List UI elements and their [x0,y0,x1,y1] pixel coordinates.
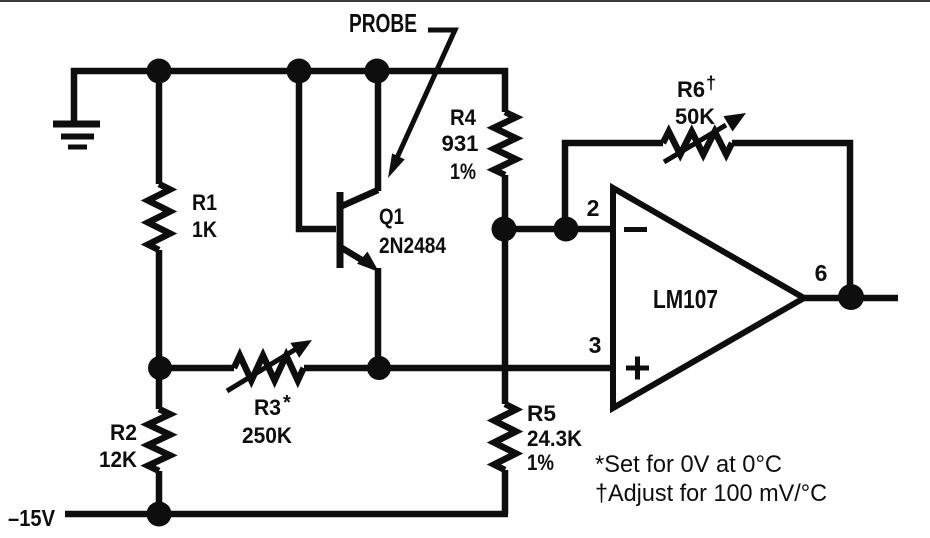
wire R1 top (top rail to R1) [156,71,163,184]
wire emitter lead down to node [375,268,382,368]
ground [53,68,100,147]
svg-text:2N2484: 2N2484 [379,233,447,258]
resistor R1 [148,184,170,250]
transistor Q1 [340,190,379,272]
wire top rail [71,68,508,75]
svg-text:1%: 1% [527,450,554,475]
wire collector lead [375,71,382,191]
svg-text:–15V: –15V [8,505,56,531]
probe arrow [388,30,455,178]
svg-text:12K: 12K [99,447,137,472]
svg-text:2: 2 [587,195,600,221]
node R4-R5 junction [492,217,517,242]
node emitter / pin-3 wire [367,356,391,380]
resistor R6 (variable) [663,113,746,162]
svg-text:*: * [283,392,291,414]
wire node to R3 [159,365,234,372]
resistor R5 [494,404,516,470]
svg-text:1%: 1% [450,159,476,184]
svg-text:PROBE: PROBE [349,8,417,38]
svg-text:R4: R4 [450,105,477,130]
wire R5 bottom to -15V rail [502,470,509,514]
wire inverting node to pin 2 [566,226,613,233]
op-amp plus sign [626,357,649,380]
op-amp minus sign [624,227,647,232]
node inverting input [554,217,579,242]
node top rail / base lead [287,59,312,84]
wire top rail corner to R4 [502,68,509,112]
resistor R4 [494,112,516,175]
resistor R2 [148,368,170,471]
svg-text:931: 931 [442,131,479,156]
svg-text:*Set for 0V at 0°C: *Set for 0V at 0°C [595,451,782,478]
wire -15V rail [65,511,508,518]
op-amp U1 LM107 [613,188,804,408]
wire feedback loop [565,143,850,298]
wire R1 bottom to node [156,250,163,368]
node output / feedback [838,284,864,310]
svg-text:R2: R2 [110,420,137,445]
svg-text:24.3K: 24.3K [527,426,582,451]
resistor R3 (variable) [227,340,312,391]
wire R4 bottom to node [502,175,509,404]
wire R2 bottom [156,471,163,514]
svg-text:3: 3 [589,332,602,358]
svg-text:R6: R6 [677,77,705,102]
node top rail / R1 [147,59,172,84]
svg-text:†: † [706,73,716,93]
svg-text:50K: 50K [675,104,715,129]
wire node to node (R4 junction to inverting node) [504,226,566,233]
svg-text:†Adjust for 100 mV/°C: †Adjust for 100 mV/°C [595,480,827,507]
node R1-R2-R3 junction [148,356,172,380]
svg-text:6: 6 [815,260,828,286]
svg-text:Q1: Q1 [379,204,404,229]
svg-text:R1: R1 [192,190,217,215]
svg-text:R5: R5 [527,401,556,426]
svg-text:R3: R3 [254,395,281,420]
svg-text:250K: 250K [242,423,292,448]
svg-text:LM107: LM107 [653,284,718,314]
wire base lead (top rail down to Q1 base) [299,71,336,229]
node -15V rail / R2 [147,502,172,527]
wire R3 to op-amp pin 3 [304,365,613,372]
wire output [804,295,898,302]
node top rail / collector [365,59,390,84]
svg-text:1K: 1K [192,217,217,242]
